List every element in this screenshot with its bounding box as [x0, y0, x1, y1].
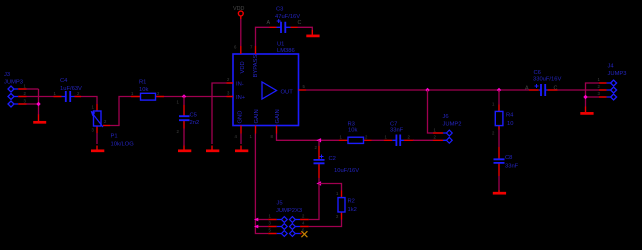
- wire J5 row2 left stub: [255, 226, 268, 228]
- wire ground riser: [38, 89, 40, 115]
- wire OUT junction down to J6 pin1: [428, 90, 434, 133]
- capacitor C7: [384, 121, 414, 146]
- ground under J4: [580, 107, 593, 114]
- svg-text:J3: J3: [4, 72, 10, 78]
- wire J5 row1 riser to C2 node: [309, 184, 319, 220]
- svg-text:C4: C4: [60, 78, 68, 84]
- svg-text:10uF/16V: 10uF/16V: [334, 168, 359, 174]
- resistor R3: [339, 121, 372, 143]
- junction OUT/J6: [425, 88, 429, 92]
- wire C2 bottom node: [318, 178, 320, 184]
- junction node C5 tap: [182, 94, 186, 98]
- wire R2 to J5 pin row2: [309, 220, 342, 227]
- capacitor C3: [267, 7, 302, 34]
- svg-text:J6: J6: [443, 114, 449, 120]
- svg-text:47uF/16V: 47uF/16V: [275, 14, 300, 20]
- junction at J4 pin3: [583, 95, 587, 99]
- svg-text:J5: J5: [277, 201, 283, 207]
- svg-text:A: A: [267, 20, 271, 26]
- resistor R4: [492, 102, 514, 136]
- capacitor C5: [177, 100, 200, 135]
- ground under J3: [33, 115, 46, 123]
- wire R1 to IC IN+: [164, 96, 227, 98]
- wire J3 pin3 to ground riser: [27, 103, 39, 105]
- svg-text:GAIN: GAIN: [275, 109, 281, 123]
- wire R4 branch: [498, 90, 500, 105]
- junction C2 tap: [316, 138, 321, 142]
- svg-text:R4: R4: [506, 113, 514, 119]
- junction OUT/R4: [497, 88, 501, 92]
- svg-text:JUMP2: JUMP2: [443, 122, 462, 128]
- wire IN- to ground: [212, 83, 227, 144]
- svg-text:C5: C5: [190, 113, 197, 119]
- wire GAIN1 down to J5 row3: [255, 134, 268, 234]
- resistor R2: [336, 191, 357, 220]
- svg-text:LM386: LM386: [277, 48, 295, 54]
- svg-text:A: A: [525, 86, 529, 92]
- ground under P1: [91, 146, 104, 151]
- svg-text:U1: U1: [277, 42, 284, 48]
- wire P1 wiper to R1: [110, 97, 131, 126]
- capacitor C8: [494, 147, 519, 176]
- wire OUT net: [306, 89, 529, 91]
- capacitor C6: [525, 70, 561, 96]
- svg-text:C3: C3: [276, 7, 283, 13]
- wire J3 pin2 to C4: [27, 96, 54, 98]
- svg-text:C: C: [554, 86, 558, 92]
- svg-text:C6: C6: [534, 70, 541, 76]
- capacitor C2: [314, 145, 360, 178]
- wire node to R2: [319, 184, 342, 191]
- wire R3 to C7: [372, 139, 385, 141]
- ground under IC: [235, 146, 248, 151]
- connector J3: [4, 72, 27, 107]
- svg-text:1k2: 1k2: [348, 207, 357, 213]
- wire R4 to C8: [498, 130, 500, 148]
- capacitor C4: [54, 78, 83, 102]
- wire C6 to J4: [558, 89, 600, 91]
- junction at J3 pin3: [36, 102, 40, 106]
- svg-text:OUT: OUT: [281, 90, 294, 96]
- wire C8 to ground: [498, 176, 500, 190]
- svg-text:JUMP2X3: JUMP2X3: [276, 208, 302, 214]
- svg-text:J4: J4: [608, 64, 615, 70]
- potentiometer P1: [91, 104, 135, 148]
- ground under IN- net: [206, 146, 219, 151]
- wire J3 pin1 to ground riser: [27, 88, 39, 90]
- net flag arrow row1: [254, 218, 258, 222]
- svg-text:GAIN: GAIN: [254, 109, 260, 123]
- wire J4 pin1/pin3 ground riser: [586, 83, 600, 107]
- svg-text:C: C: [298, 20, 302, 26]
- svg-text:C8: C8: [505, 155, 512, 161]
- svg-text:R2: R2: [348, 199, 355, 205]
- no-connect X on J5 pin6: [301, 231, 307, 237]
- wire IC GND to ground: [240, 134, 242, 145]
- ground under C8: [493, 190, 506, 193]
- svg-text:IN-: IN-: [236, 82, 244, 88]
- wire P1 bottom to ground: [96, 133, 98, 144]
- svg-text:2n2: 2n2: [190, 120, 200, 126]
- svg-text:C7: C7: [390, 121, 397, 127]
- svg-text:VDD: VDD: [233, 6, 244, 12]
- net flag arrow row2: [254, 225, 258, 229]
- svg-text:R3: R3: [348, 121, 355, 127]
- svg-text:P1: P1: [111, 134, 118, 140]
- wire C7 to J6 pin2: [413, 139, 433, 141]
- wire C3 to ground: [298, 27, 313, 30]
- svg-text:330uF/16V: 330uF/16V: [533, 77, 561, 83]
- ground under C5: [178, 146, 191, 151]
- wire C4 to P1: [81, 97, 97, 105]
- supply VDD: [233, 6, 244, 19]
- junction arrow C2/R2/J5 node: [316, 181, 321, 185]
- wire junction to C5: [183, 97, 185, 106]
- resistor R1: [131, 80, 164, 101]
- wire C5 to ground: [183, 129, 185, 146]
- wire C3 to BYPASS: [256, 27, 270, 46]
- wire VDD to IC: [240, 19, 242, 46]
- svg-text:IN+: IN+: [236, 95, 246, 101]
- connector J4: [598, 64, 627, 101]
- svg-text:33nF: 33nF: [390, 128, 404, 134]
- svg-text:JUMP3: JUMP3: [4, 80, 23, 86]
- connector J6: [433, 114, 462, 143]
- wire J5 row1 left stub: [255, 219, 268, 221]
- svg-text:VDD: VDD: [240, 61, 246, 73]
- op-amp U1 LM386: [227, 42, 307, 139]
- connector J5: [268, 201, 309, 237]
- wire C2 branch: [318, 140, 320, 146]
- svg-text:10k: 10k: [348, 128, 357, 134]
- ground right of C3: [306, 30, 319, 36]
- svg-text:10k: 10k: [139, 87, 148, 93]
- svg-text:10k/LOG: 10k/LOG: [111, 142, 135, 148]
- svg-text:33nF: 33nF: [505, 163, 519, 169]
- svg-text:10: 10: [507, 121, 513, 127]
- wire GAIN8 down to bass-boost row: [277, 134, 340, 141]
- svg-text:C2: C2: [329, 156, 336, 162]
- svg-text:GND: GND: [237, 111, 243, 124]
- svg-text:JUMP3: JUMP3: [608, 71, 627, 77]
- svg-text:R1: R1: [139, 80, 146, 86]
- svg-text:BYPASS: BYPASS: [253, 55, 259, 78]
